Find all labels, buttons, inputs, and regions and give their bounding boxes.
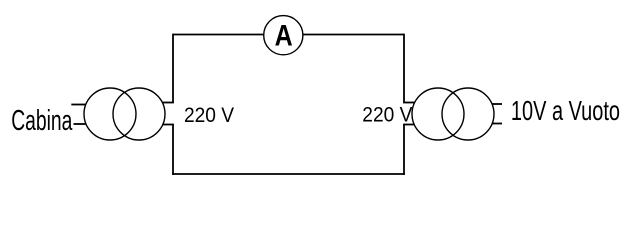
wire bottom segment: [172, 173, 405, 175]
T1 right bottom pin: [162, 124, 174, 126]
T2 right top pin: [492, 103, 502, 105]
svg-text:10V a Vuoto: 10V a Vuoto: [511, 96, 620, 127]
T1 left bottom pin: [74, 123, 87, 125]
T2 left top pin: [403, 102, 415, 104]
transformer T1 secondary winding: [113, 88, 165, 140]
ammeter U1: [264, 16, 303, 55]
svg-text:Cabina: Cabina: [11, 105, 73, 137]
T2 right bottom pin: [492, 123, 502, 125]
svg-text:220 V: 220 V: [184, 104, 235, 127]
transformer T2 secondary winding: [442, 88, 494, 140]
transformer T2 primary winding: [412, 88, 464, 140]
svg-text:A: A: [275, 19, 293, 52]
T1 left top pin: [71, 104, 86, 106]
wire right vertical upper: [403, 34, 405, 103]
transformer T1 primary winding: [84, 88, 136, 140]
wire left vertical lower: [172, 125, 174, 175]
wire top-left segment: [173, 34, 264, 36]
wire left vertical upper: [172, 34, 174, 103]
T1 right top pin: [162, 102, 174, 104]
wire right vertical lower: [403, 125, 405, 175]
T2 left bottom pin: [403, 124, 415, 126]
svg-text:220 V: 220 V: [362, 104, 413, 127]
wire top-right segment: [303, 34, 404, 36]
